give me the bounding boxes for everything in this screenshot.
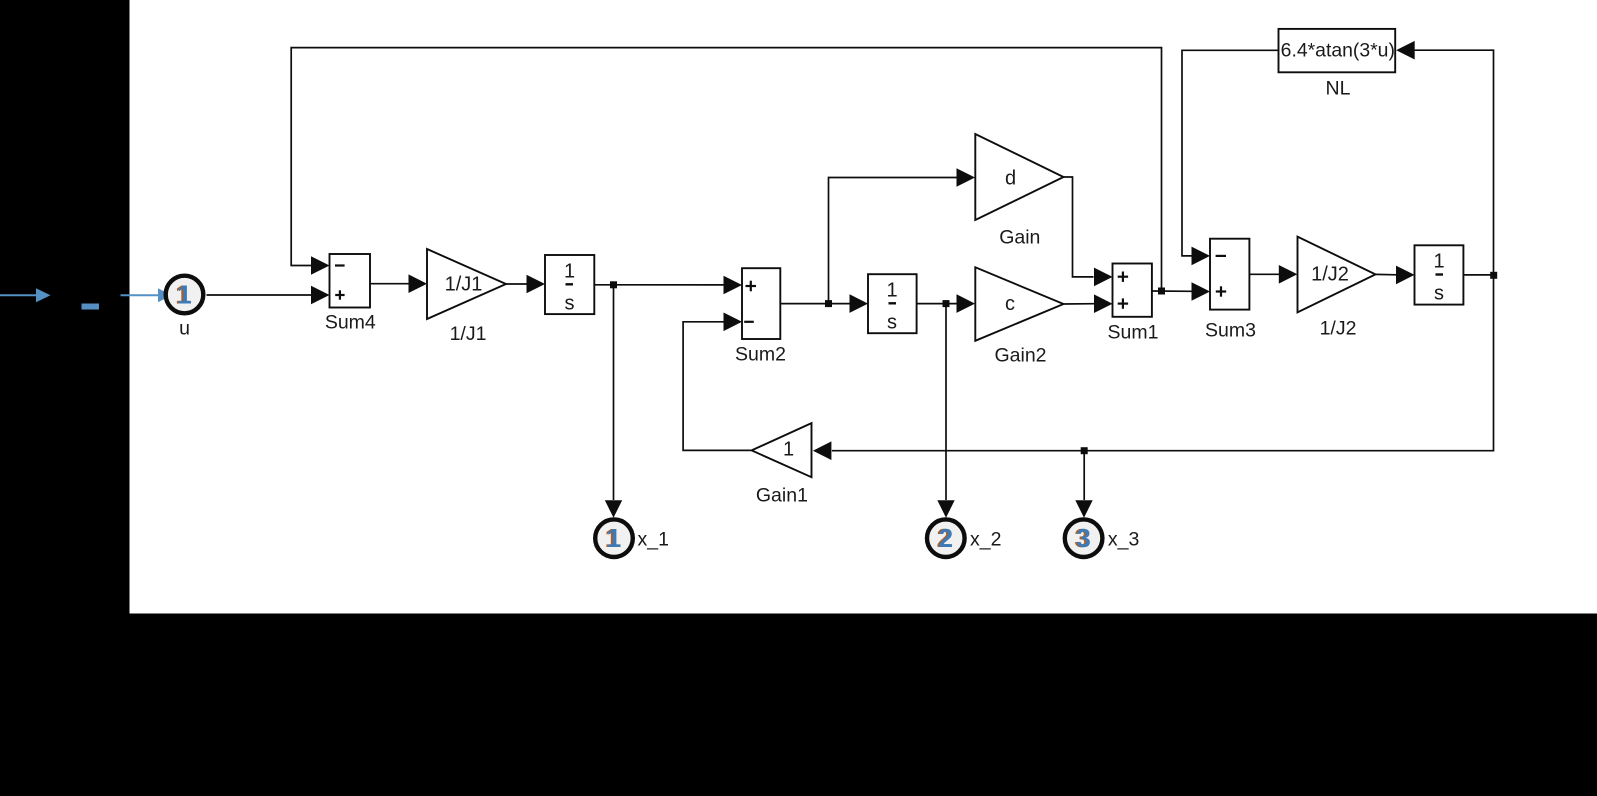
wire x_1 drop [605,285,622,518]
svg-text:Sum3: Sum3 [1205,320,1256,342]
wire feedback node to Gain1 input [813,275,1494,460]
outport 2 (x_2) [927,519,965,557]
svg-text:1: 1 [783,439,794,461]
blue annotation arrow segment 2 [121,288,172,302]
svg-text:Sum4: Sum4 [325,312,376,334]
svg-text:1/J2: 1/J2 [1311,264,1349,286]
svg-text:x_2: x_2 [970,529,1001,551]
junction after Sum2 [825,300,832,307]
wire Integrator2 to Gain2 [917,294,975,313]
svg-text:1: 1 [564,260,575,282]
svg-text:Sum1: Sum1 [1108,322,1159,344]
wire gain d to Sum1 top input [1064,177,1113,286]
blue annotation arrow segment 1 [0,288,51,302]
wire feedback Sum1 to Sum4 minus input [291,48,1161,291]
junction after Sum1 [1158,288,1165,295]
wire Gain1 to Sum2 minus input [683,313,752,451]
sum Sum2 [742,268,780,339]
svg-text:u: u [179,318,190,340]
svg-text:x_3: x_3 [1108,529,1139,551]
gain d (Gain) [975,134,1063,220]
integrator2 1/s [868,274,917,333]
svg-text:1/J1: 1/J1 [445,274,483,296]
svg-text:Gain1: Gain1 [756,485,808,507]
wire Integrator1 to Sum2 plus input [594,276,742,295]
svg-text:1/J2: 1/J2 [1320,318,1357,340]
blue annotation dash [82,304,100,310]
junction feedback node [1490,272,1497,279]
wire Sum1 to Sum3 plus input [1152,282,1210,301]
svg-text:6.4*atan(3*u): 6.4*atan(3*u) [1281,40,1395,62]
wire feedback node to NL input [1396,41,1493,275]
svg-text:3: 3 [1076,523,1090,553]
wire Sum4 to 1/J1 [370,274,427,293]
wire Sum2 to Integrator2 [780,294,868,313]
wire 1/J2 to Integrator3 [1376,266,1415,285]
svg-text:Gain: Gain [999,227,1040,249]
wire NL to Sum3 minus input [1182,50,1279,265]
svg-text:1/J1: 1/J1 [450,323,487,345]
svg-text:c: c [1005,293,1015,315]
svg-text:NL: NL [1326,77,1351,99]
sum Sum4 [330,254,371,308]
nonlinearity NL [1279,29,1396,72]
svg-text:s: s [565,292,575,314]
integrator1 1/s [545,255,594,314]
inport 1 (u) [166,276,204,314]
svg-text:1: 1 [607,523,621,553]
wire x_2 drop [937,304,954,518]
junction after Integrator2 [943,300,950,307]
integrator3 1/s [1415,245,1464,304]
svg-text:1: 1 [1433,251,1444,273]
wire 1/J1 to Integrator1 [506,275,545,294]
svg-text:Sum2: Sum2 [735,344,786,366]
svg-text:s: s [1434,283,1444,305]
wire x_3 drop [1075,451,1092,518]
svg-text:1: 1 [177,280,191,310]
wire Integrator3 to feedback node [1463,274,1493,276]
wire u to Sum4 plus input [207,286,330,305]
junction x_3 tap [1081,447,1088,454]
outport 3 (x_3) [1065,519,1103,557]
svg-text:2: 2 [939,523,953,553]
svg-text:1: 1 [886,279,897,301]
svg-text:d: d [1005,168,1016,190]
gain 1/J2 [1298,237,1376,313]
gain c (Gain2) [975,267,1063,341]
wire Gain2 to Sum1 bottom input [1064,294,1113,313]
outport 1 (x_1) [595,519,633,557]
sum Sum3 [1210,239,1249,310]
wire Sum3 to 1/J2 [1249,265,1297,284]
sum Sum1 [1113,264,1152,317]
svg-text:Gain2: Gain2 [994,345,1046,367]
svg-text:s: s [887,311,897,333]
wire branch to gain d [829,168,976,303]
gain 1/J1 [427,249,506,319]
junction after Integrator1 [610,281,617,288]
gain Gain1 (left pointing) [752,423,812,477]
svg-text:x_1: x_1 [638,529,669,551]
